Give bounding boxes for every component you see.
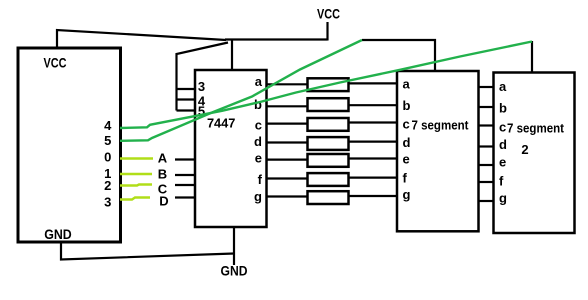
svg-text:7 segment: 7 segment (507, 120, 565, 135)
svg-text:a: a (403, 77, 411, 92)
svg-text:d: d (254, 134, 262, 149)
svg-text:d: d (403, 135, 411, 150)
svg-text:b: b (254, 97, 262, 112)
svg-text:c: c (255, 117, 262, 132)
svg-text:A: A (158, 151, 168, 166)
svg-text:a: a (499, 79, 507, 94)
svg-text:0: 0 (104, 150, 111, 165)
svg-text:4: 4 (104, 118, 112, 133)
svg-text:VCC: VCC (317, 6, 340, 22)
svg-text:GND: GND (221, 263, 248, 279)
svg-text:7 segment: 7 segment (412, 118, 470, 133)
svg-text:3: 3 (104, 195, 111, 210)
svg-text:7447: 7447 (207, 116, 236, 131)
svg-text:f: f (258, 172, 263, 187)
svg-text:5: 5 (104, 133, 111, 148)
svg-text:3: 3 (198, 79, 205, 94)
svg-text:D: D (159, 194, 168, 209)
svg-text:g: g (403, 187, 411, 202)
svg-text:c: c (499, 120, 506, 135)
svg-text:b: b (499, 101, 507, 116)
svg-text:d: d (499, 137, 507, 152)
svg-text:f: f (403, 171, 408, 186)
svg-text:c: c (403, 116, 410, 131)
svg-text:2: 2 (521, 142, 528, 157)
svg-text:b: b (403, 98, 411, 113)
svg-text:e: e (403, 152, 410, 167)
svg-text:g: g (254, 189, 262, 204)
svg-text:VCC: VCC (44, 55, 67, 71)
svg-text:g: g (499, 190, 507, 205)
svg-text:2: 2 (104, 178, 111, 193)
svg-text:a: a (255, 74, 263, 89)
svg-text:GND: GND (44, 226, 72, 242)
svg-text:B: B (158, 167, 167, 182)
svg-text:f: f (499, 174, 504, 189)
svg-text:e: e (255, 150, 262, 165)
svg-text:e: e (499, 155, 506, 170)
